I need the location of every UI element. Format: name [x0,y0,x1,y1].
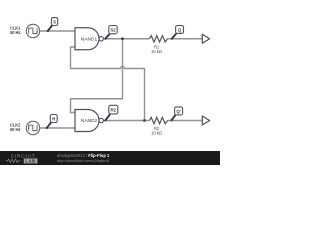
svg-text:10 kΩ: 10 kΩ [151,49,162,54]
footer logo CircuitLab [6,154,38,164]
junction at NAND1 output [121,37,124,40]
wire NAND1 input B feedback (stub, down, across with hop, down to NAND2 output) [71,47,145,121]
clock source CLK1 [26,24,39,37]
svg-text:60 Hz: 60 Hz [10,127,20,132]
svg-text:S: S [53,20,56,25]
svg-text:R2: R2 [110,108,116,113]
svg-text:10 kΩ: 10 kΩ [151,131,162,136]
nand gate NAND2 [75,110,103,132]
label CLK1 50 Hz [10,25,21,34]
svg-text:Q: Q [178,28,182,33]
wire CLK2 to NAND2 input B [40,127,76,129]
svg-text:50 Hz: 50 Hz [10,30,20,35]
wire R1 to output port Q [168,38,203,40]
probe flag R [46,115,58,130]
wire CLK1 to NAND1 input A [40,30,76,32]
resistor R1 [150,36,168,42]
svg-text:NAND2: NAND2 [81,118,98,124]
footer text [57,153,110,163]
nand gate NAND1 [75,28,103,50]
svg-text:Q': Q' [176,109,180,114]
wire R2 to output port Q' [168,120,203,122]
clock source CLK2 [26,121,39,134]
junction at NAND2 output [143,119,146,122]
svg-text:http://circuitlab.com/c2sa8m8: http://circuitlab.com/c2sa8m8 [57,158,110,163]
probe flag Q [171,26,184,40]
wire NAND1 output to R1 [103,38,149,40]
output port arrow Q [202,34,209,43]
resistor R2 [150,117,168,123]
output port arrow Q' [202,116,209,125]
probe flag S2 [104,26,117,40]
label R2 10 kOhm [151,126,162,136]
probe flag Q' [170,107,182,122]
label CLK2 60 Hz [10,122,21,131]
label R1 10 kOhm [151,44,162,54]
svg-text:NAND1: NAND1 [81,36,98,42]
probe flag S [47,18,58,32]
svg-text:LAB: LAB [25,159,35,164]
wire NAND1 output feedback (down, across, down to NAND2 input A stub) [71,39,123,113]
svg-text:S2: S2 [110,28,116,33]
probe flag R2 [104,105,117,121]
footer bar [0,151,220,165]
wire NAND2 output to R2 [103,120,149,122]
